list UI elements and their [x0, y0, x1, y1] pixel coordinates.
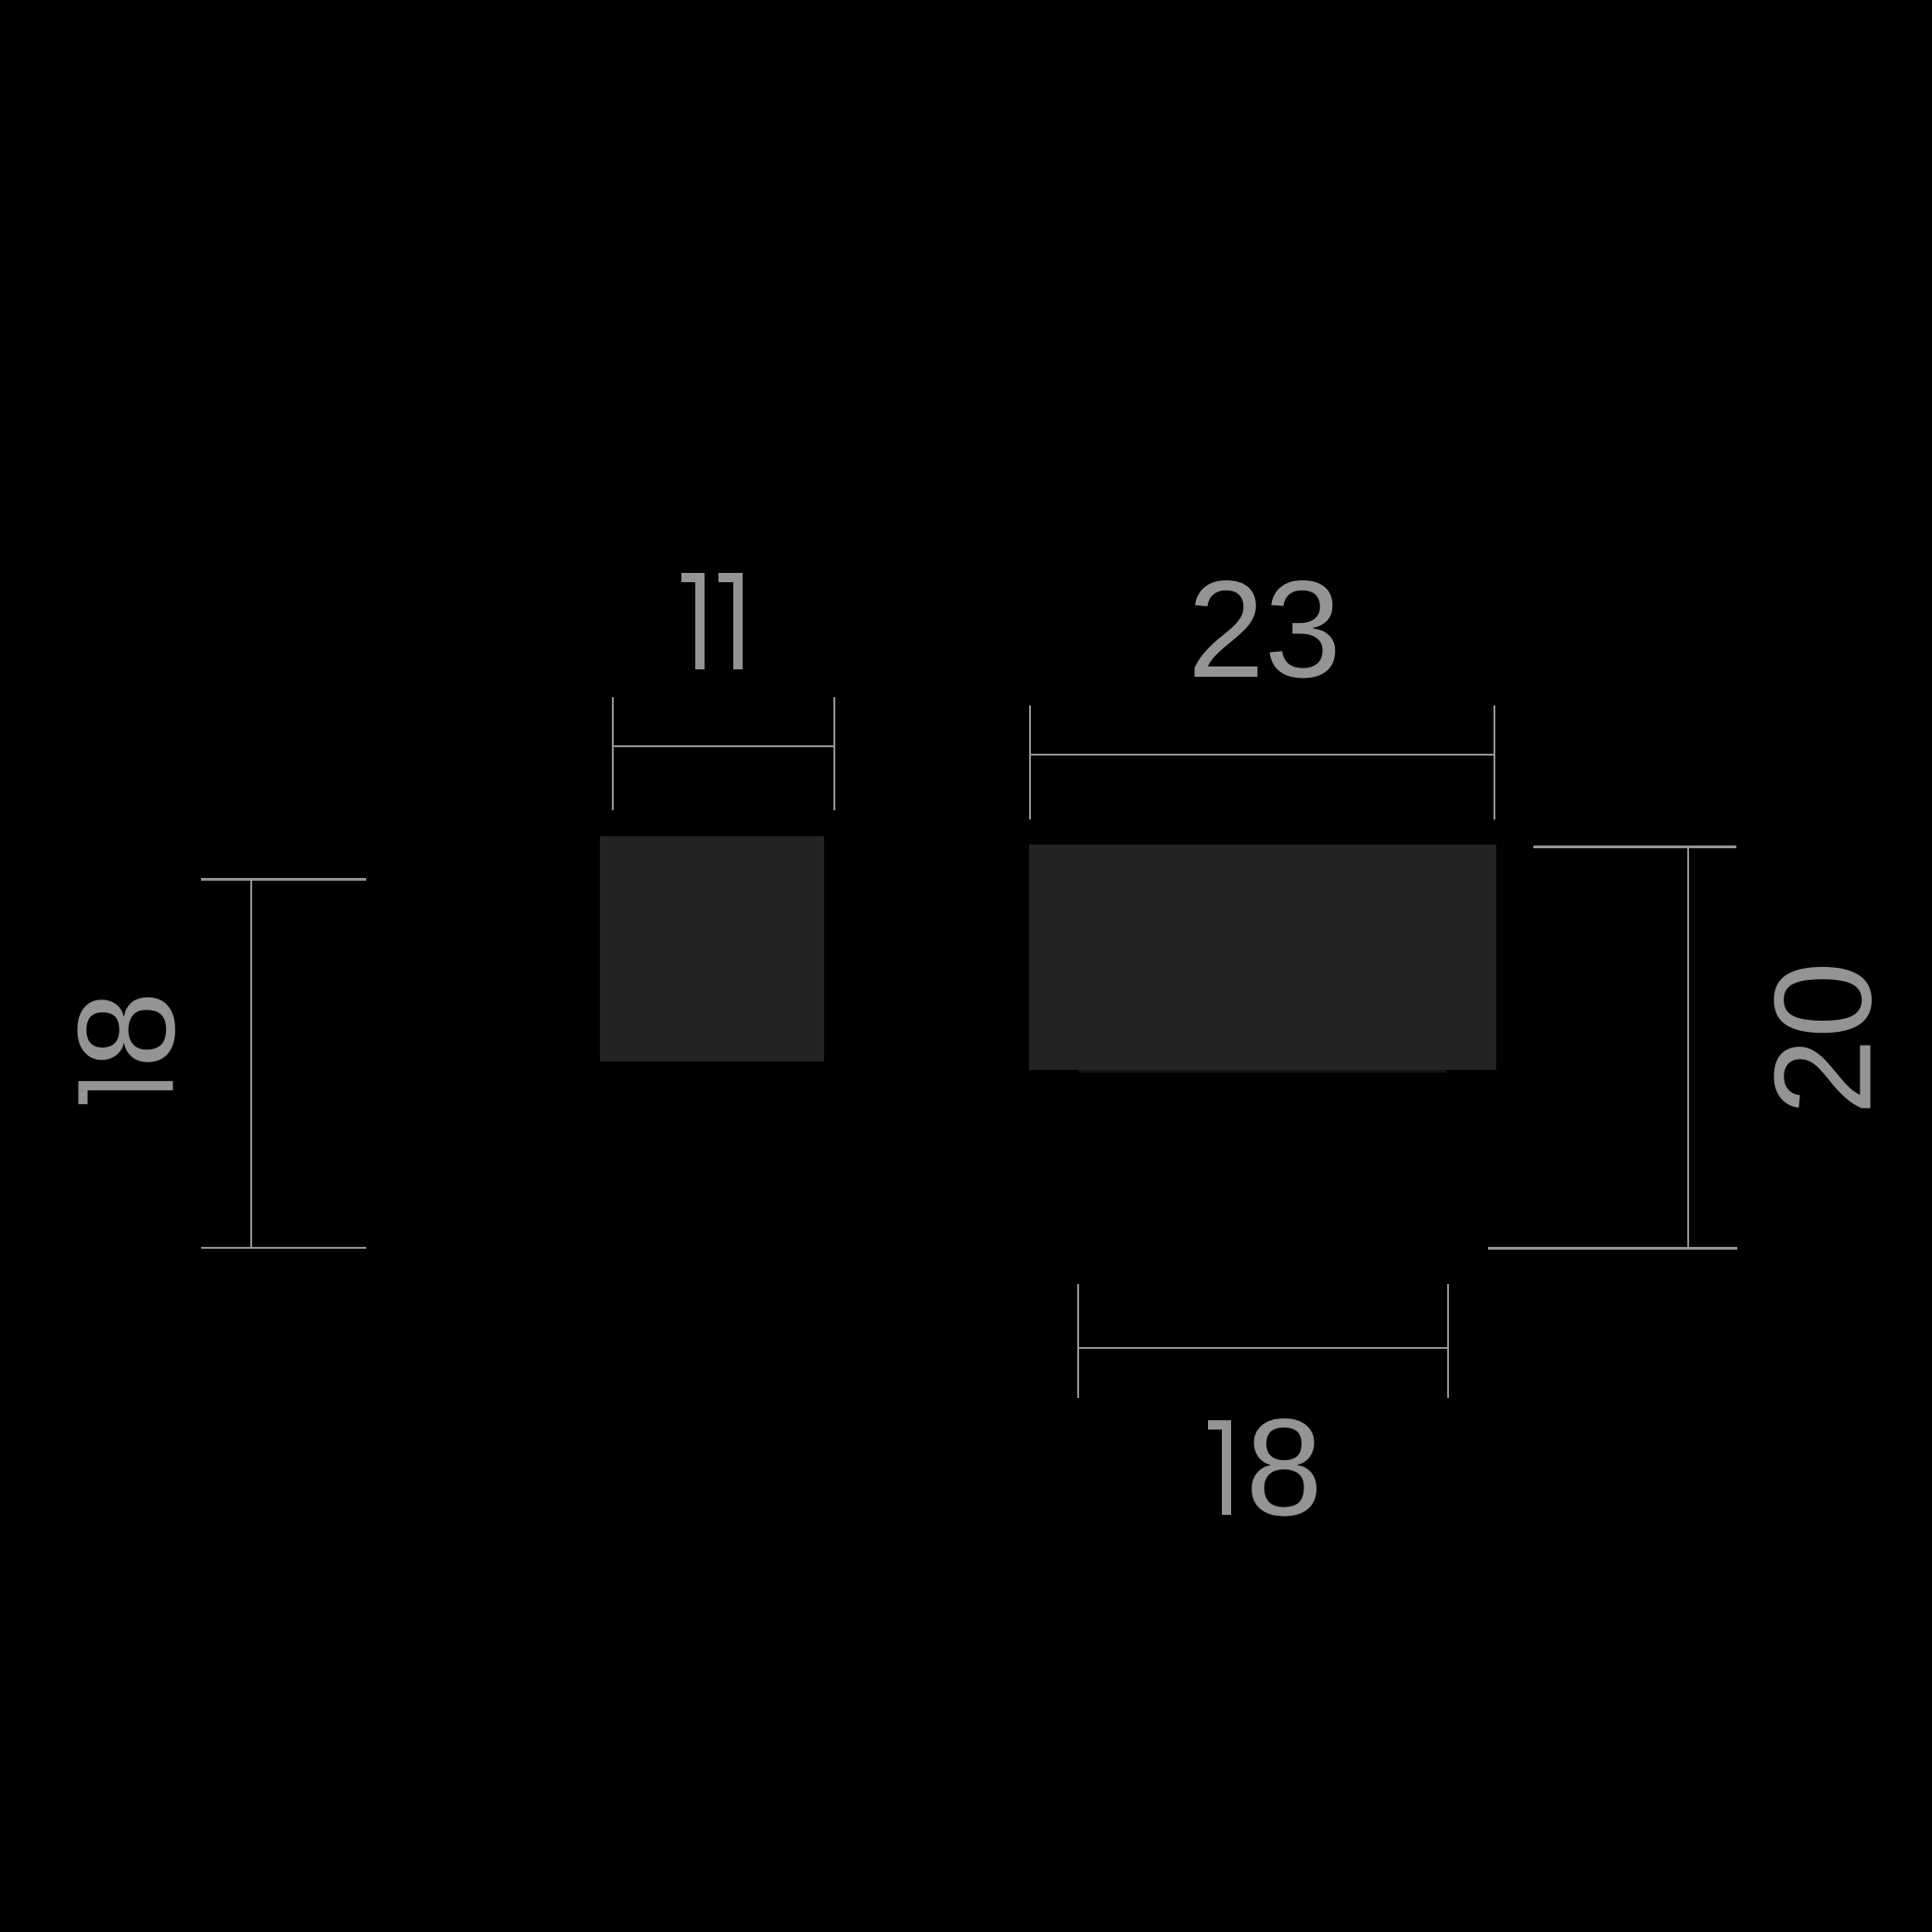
dimension label 11 (digit 1 #1 flag): [681, 573, 696, 582]
dimension label 18 bottom (digit 1 stem): [1222, 1420, 1231, 1515]
dimension label 20 right (rotated): [1754, 961, 1892, 1115]
dimension 23: line: [1029, 754, 1495, 756]
dimension 18 left: bottom tick: [201, 1247, 366, 1250]
dimension 20 right: vertical line: [1687, 847, 1689, 1249]
dimension label 18 bottom (digit 8): [1246, 1398, 1323, 1536]
profile rectangle bottom lip: [1079, 1070, 1446, 1073]
dimension label 18 left (rotated composite): [77, 995, 174, 1104]
dimension 23: right tick: [1493, 705, 1495, 820]
dimension 20 right: top tick: [1533, 845, 1737, 848]
dimension 11: right tick: [833, 697, 835, 810]
profile square (small, 11 wide): [600, 836, 824, 1061]
dimension label 23: [1188, 560, 1341, 698]
dimension 18 left: top tick: [201, 878, 366, 881]
profile rectangle (large, 23 wide): [1029, 845, 1496, 1070]
dimension label 11 (digit 1 #2 stem): [733, 573, 743, 669]
dimension 18 bottom: line: [1078, 1347, 1448, 1349]
dimension 18 bottom: right tick: [1447, 1284, 1449, 1399]
dimension label 18 bottom (digit 1 flag): [1208, 1420, 1222, 1430]
dimension 11: left tick: [612, 697, 614, 810]
dimension 20 right: bottom tick: [1488, 1247, 1737, 1250]
dimension 18 bottom: left tick: [1077, 1284, 1079, 1399]
dimension label 11 (digit 1 #1 stem): [695, 573, 705, 669]
dimension label 11 (digit 1 #2 flag): [718, 573, 733, 582]
dimension 23: left tick: [1029, 705, 1031, 820]
dimension 11: line: [612, 745, 834, 747]
dimension 18 left: vertical line: [250, 880, 252, 1248]
